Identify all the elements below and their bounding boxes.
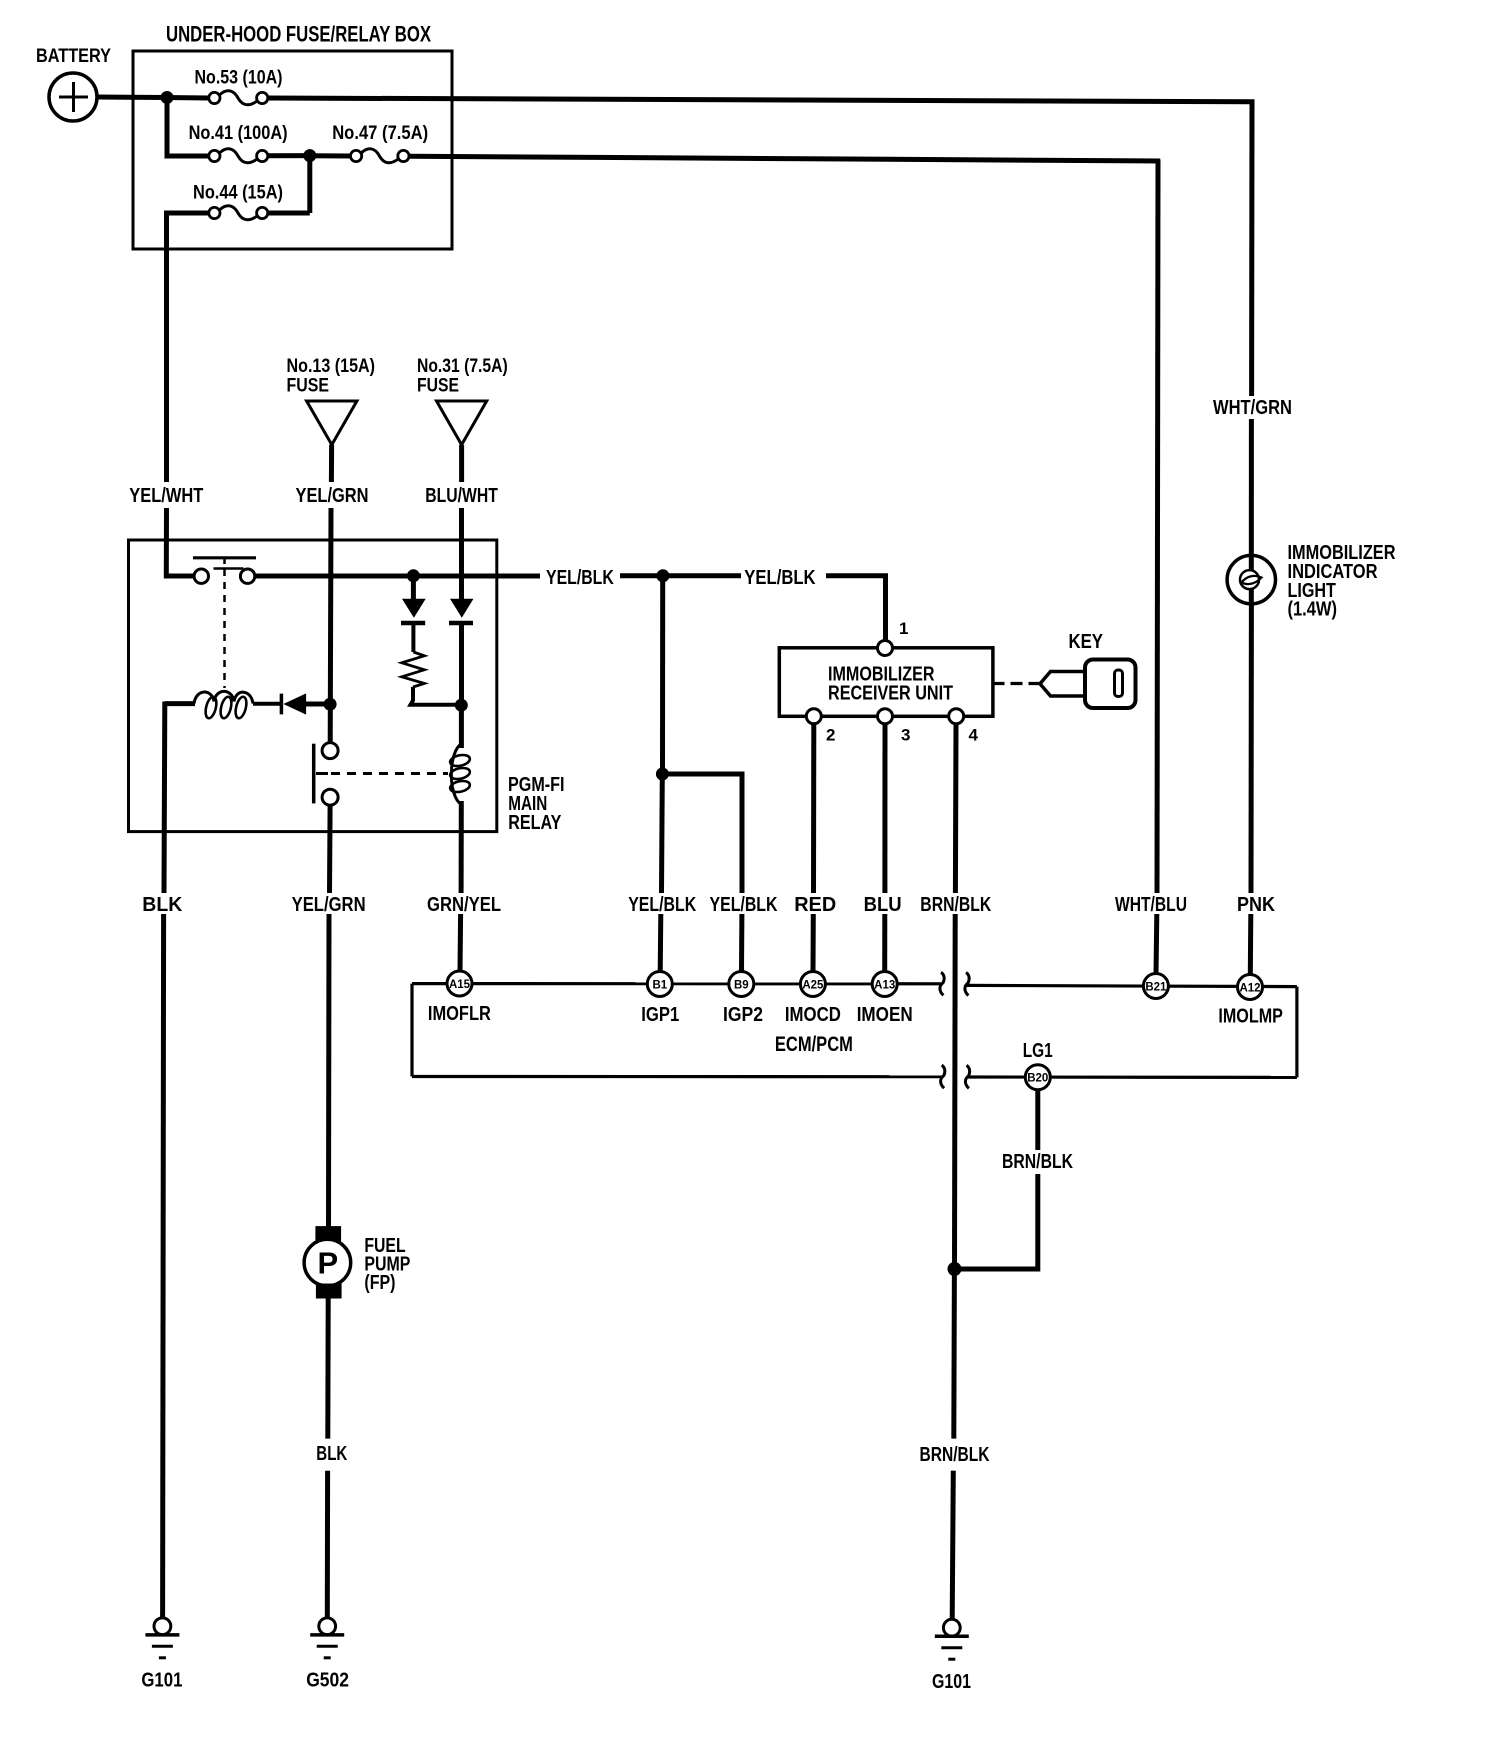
wire WHT/GRN to indicator: [1249, 419, 1254, 605]
label IMOEN: [857, 1004, 913, 1026]
connector A12: [1238, 975, 1263, 1000]
diode arrow pointing left: [283, 693, 306, 714]
label YEL/WHT: [129, 485, 203, 507]
svg-text:(1.4W): (1.4W): [1288, 599, 1338, 621]
pin 3 terminal: [878, 709, 911, 745]
label RED: [794, 894, 836, 916]
fuse No.47 (7.5A): [332, 123, 428, 163]
label BLK: [142, 894, 183, 916]
wire BLU pin3 down: [882, 724, 887, 893]
diode 2 cathode bar: [449, 621, 473, 626]
relay switch bar: [314, 744, 328, 804]
node junction diode2 resistor: [455, 699, 468, 712]
label fuel pump: [364, 1235, 410, 1294]
node diode junction YEL/BLK: [407, 569, 420, 582]
wire BRN/BLK below junction: [951, 1269, 957, 1439]
fuse No.31 (7.5A) symbol: [417, 356, 508, 445]
immobilizer indicator light bulb: [1227, 555, 1275, 603]
wire row2 mid: [268, 153, 310, 158]
node YEL/BLK junction: [656, 569, 669, 582]
svg-text:G502: G502: [306, 1670, 349, 1692]
svg-text:BRN/BLK: BRN/BLK: [1002, 1151, 1073, 1173]
label PNK: [1237, 894, 1275, 916]
label BLU/WHT: [425, 485, 498, 507]
wire PNK into A12: [1248, 914, 1254, 975]
svg-text:P: P: [318, 1246, 339, 1281]
pin 2 terminal: [806, 709, 835, 745]
svg-text:(FP): (FP): [364, 1272, 395, 1294]
wire BRN/BLK branch to junction: [955, 1174, 1038, 1269]
wire junction to relay coil 2: [459, 705, 464, 748]
wire diode 2 to junction: [459, 623, 464, 705]
diode 1 stem from YEL/BLK: [411, 576, 416, 600]
connector pass-through mark bottom left: [941, 1065, 945, 1088]
connector pass-through mark bottom right: [965, 1065, 969, 1088]
svg-text:ECM/PCM: ECM/PCM: [775, 1033, 853, 1056]
label LG1: [1023, 1040, 1053, 1062]
label BRN/BLK branch: [1002, 1151, 1073, 1173]
svg-text:UNDER-HOOD FUSE/RELAY BOX: UNDER-HOOD FUSE/RELAY BOX: [166, 22, 431, 47]
connector B1: [647, 972, 672, 997]
diode 2 arrow down: [450, 599, 474, 618]
label IGP2: [723, 1004, 763, 1026]
wire BLK below fuel pump: [325, 1299, 330, 1439]
diode 1 cathode bar: [401, 621, 425, 626]
label YEL/GRN lower: [292, 894, 366, 916]
svg-text:No.47 (7.5A): No.47 (7.5A): [332, 123, 428, 144]
label YEL/GRN: [296, 485, 369, 507]
wire WHT/BLU into B21: [1154, 914, 1160, 974]
fuse No.44 (15A): [193, 183, 283, 220]
label BRN/BLK lower: [920, 1444, 990, 1466]
wire branch to B9: [662, 774, 742, 893]
relay coil horizontal: [165, 691, 253, 719]
svg-text:2: 2: [826, 726, 835, 745]
wire BRN/BLK to ground: [952, 1471, 953, 1620]
PGM-FI main relay box: [129, 540, 565, 834]
wire row2 to fuse 47: [310, 153, 351, 158]
wire junction down to row3: [307, 156, 312, 213]
wire row3 left to vertical: [167, 211, 209, 216]
label IGP1: [641, 1004, 679, 1026]
svg-text:WHT/GRN: WHT/GRN: [1213, 397, 1292, 419]
wire WHT/BLU vertical: [1157, 160, 1158, 893]
wire YEL/BLK vertical to ECM: [660, 576, 665, 774]
node junction after fuse 41: [303, 149, 316, 162]
label IMOFLR: [428, 1003, 491, 1025]
label YEL/BLK second: [744, 567, 816, 589]
svg-text:YEL/BLK: YEL/BLK: [628, 894, 696, 916]
svg-text:4: 4: [969, 726, 979, 745]
svg-text:IGP1: IGP1: [641, 1004, 679, 1026]
svg-text:B9: B9: [734, 979, 749, 991]
svg-text:BRN/BLK: BRN/BLK: [920, 1444, 990, 1466]
label ECM/PCM: [775, 1033, 853, 1056]
svg-text:1: 1: [899, 619, 908, 638]
svg-text:3: 3: [901, 726, 910, 745]
wire coil to diode: [253, 702, 281, 706]
wire diode 1 to resistor: [411, 623, 415, 652]
svg-text:IMOLMP: IMOLMP: [1218, 1006, 1283, 1028]
wire PNK below indicator: [1249, 604, 1254, 893]
fuse No.53 (10A): [195, 68, 283, 105]
wire BLK to ground G101: [163, 914, 164, 1618]
svg-text:G101: G101: [932, 1671, 971, 1693]
dashed link unit to key: [993, 682, 1041, 685]
svg-text:B1: B1: [652, 979, 667, 991]
svg-text:FUSE: FUSE: [417, 376, 459, 397]
wire YEL/WHT down from fuse box: [164, 211, 169, 483]
wire YEL/BLK from contact: [255, 574, 540, 579]
svg-text:BLU: BLU: [864, 894, 902, 916]
svg-text:RELAY: RELAY: [508, 812, 562, 834]
fuel pump motor: [304, 1226, 351, 1298]
svg-text:No.13 (15A): No.13 (15A): [287, 356, 376, 377]
relay switch contact bottom: [322, 789, 338, 805]
label YEL/BLK first: [546, 567, 614, 589]
label BLU: [864, 894, 902, 916]
svg-text:BLU/WHT: BLU/WHT: [425, 485, 498, 507]
wire row2 left stub: [165, 154, 209, 159]
relay contact terminal right: [240, 569, 254, 583]
svg-text:YEL/BLK: YEL/BLK: [710, 894, 778, 916]
label YEL/BLK col1: [628, 894, 696, 916]
svg-text:RED: RED: [794, 894, 836, 916]
wire YEL/GRN below switch: [327, 805, 333, 893]
fuse No.13 (15A) symbol: [287, 356, 376, 445]
svg-text:A25: A25: [802, 979, 824, 991]
connector B21: [1143, 974, 1168, 999]
wire YEL/GRN from fuse 13: [329, 445, 334, 482]
wire fuse row1 left: [165, 95, 209, 101]
relay switch contact top: [322, 743, 338, 759]
node junction on YEL/GRN: [324, 698, 337, 711]
svg-text:B20: B20: [1027, 1073, 1048, 1085]
label IMOLMP: [1218, 1006, 1283, 1028]
connector pass-through mark top left: [940, 972, 944, 995]
wire GRN/YEL below coil: [459, 801, 464, 893]
relay contact actuator dashed link: [223, 569, 226, 688]
svg-text:No.53 (10A): No.53 (10A): [195, 68, 283, 89]
battery symbol: [36, 46, 111, 121]
svg-text:YEL/GRN: YEL/GRN: [296, 485, 369, 507]
ground G101 left: [141, 1618, 182, 1692]
key blade: [1040, 672, 1090, 697]
connector A15: [447, 971, 472, 996]
wire battery to fuse box: [97, 95, 167, 101]
relay contact bar: [193, 558, 256, 564]
node BRN/BLK junction: [948, 1262, 962, 1276]
wire WHT/GRN vertical upper: [1249, 100, 1254, 396]
fuse No.41 (100A): [189, 123, 288, 163]
svg-text:PNK: PNK: [1237, 894, 1275, 916]
wire diode to YEL/GRN junction: [306, 702, 328, 707]
svg-text:A15: A15: [449, 979, 471, 991]
svg-text:BATTERY: BATTERY: [36, 46, 111, 67]
svg-text:A12: A12: [1239, 982, 1260, 994]
connector A13: [872, 972, 897, 997]
label GRN/YEL: [427, 894, 501, 916]
key head: [1085, 660, 1136, 709]
wire RED into A25: [811, 914, 816, 972]
svg-text:No.44 (15A): No.44 (15A): [193, 183, 283, 204]
wire YEL/BLK into B1: [658, 914, 664, 972]
svg-text:YEL/BLK: YEL/BLK: [546, 567, 614, 589]
node junction below battery: [161, 91, 174, 104]
wire LG1 B20 down: [1035, 1090, 1040, 1150]
pin 4 terminal: [949, 709, 979, 745]
svg-text:IMOEN: IMOEN: [857, 1004, 913, 1026]
pin 1 terminal: [878, 619, 909, 656]
relay contact arm: [214, 567, 244, 570]
wire BRN/BLK through ECM: [952, 914, 958, 1269]
svg-text:YEL/GRN: YEL/GRN: [292, 894, 366, 916]
svg-text:BLK: BLK: [316, 1443, 347, 1465]
immobilizer receiver unit box: [779, 648, 993, 717]
label WHT/BLU: [1115, 894, 1187, 916]
label BRN/BLK col: [920, 894, 991, 916]
svg-text:No.41 (100A): No.41 (100A): [189, 123, 288, 144]
label immobilizer indicator light: [1288, 542, 1396, 621]
node YEL/BLK branch junction: [656, 768, 669, 781]
wire row2 to right corner WHT/BLU feed: [409, 156, 1160, 161]
svg-text:No.31 (7.5A): No.31 (7.5A): [417, 356, 508, 377]
under-hood fuse/relay box: [133, 22, 452, 250]
wire BLU/WHT from fuse 31: [459, 445, 464, 482]
svg-text:LG1: LG1: [1023, 1040, 1053, 1062]
wire BLU/WHT into relay to diode: [459, 508, 464, 600]
wire junction down to row2: [165, 98, 170, 157]
wire row1 to right corner WHT/GRN feed: [268, 98, 1255, 102]
wire YEL/WHT into relay: [166, 508, 194, 576]
resistor zigzag: [402, 652, 425, 687]
connector pass-through mark top right: [965, 973, 969, 996]
diode cathode bar left diode: [280, 694, 284, 715]
svg-text:A13: A13: [874, 979, 895, 991]
wire YEL/BLK vertical lower: [659, 774, 665, 893]
svg-text:IMOCD: IMOCD: [785, 1004, 841, 1026]
svg-text:GRN/YEL: GRN/YEL: [427, 894, 501, 916]
relay coil vertical: [449, 744, 471, 805]
label WHT/GRN: [1213, 397, 1292, 419]
wire YEL/BLK mid segment: [620, 573, 741, 578]
wire RED pin2 down: [811, 724, 816, 893]
svg-text:IGP2: IGP2: [723, 1004, 763, 1026]
label YEL/BLK col2: [710, 894, 778, 916]
wire BRN/BLK pin4 down: [953, 724, 959, 893]
ground G502: [306, 1618, 349, 1692]
connector B20: [1025, 1065, 1050, 1090]
ground G101 right: [932, 1619, 971, 1693]
svg-text:IMOFLR: IMOFLR: [428, 1003, 491, 1025]
label BLK lower: [316, 1443, 347, 1465]
svg-text:WHT/BLU: WHT/BLU: [1115, 894, 1187, 916]
svg-text:YEL/BLK: YEL/BLK: [744, 567, 816, 589]
wire BLK from coil down: [162, 702, 168, 894]
wire YEL/BLK to immobilizer pin 1: [826, 576, 886, 642]
label KEY: [1069, 631, 1104, 653]
wire GRN/YEL into A15: [458, 914, 464, 972]
svg-text:YEL/WHT: YEL/WHT: [129, 485, 203, 507]
wire resistor to junction: [411, 687, 462, 705]
svg-text:FUSE: FUSE: [287, 376, 330, 397]
svg-text:BRN/BLK: BRN/BLK: [920, 894, 991, 916]
svg-text:KEY: KEY: [1069, 631, 1104, 653]
diode 1 arrow down: [402, 599, 426, 618]
connector B9: [729, 972, 754, 997]
relay switch dashed link to coil: [331, 772, 448, 775]
wire BLU into A13: [882, 914, 887, 972]
wire row3 right: [268, 211, 310, 216]
svg-text:RECEIVER UNIT: RECEIVER UNIT: [828, 683, 953, 705]
relay contact terminal left: [194, 569, 208, 583]
wire YEL/GRN into relay switch: [328, 508, 334, 743]
ECM/PCM box edges: [412, 984, 1297, 1078]
wire branch into B9: [739, 914, 744, 972]
label IMOCD: [785, 1004, 841, 1026]
wire YEL/GRN to fuel pump: [326, 914, 332, 1227]
connector A25: [800, 972, 825, 997]
svg-text:B21: B21: [1145, 981, 1167, 993]
wire BLK to ground G502: [325, 1471, 330, 1618]
svg-text:BLK: BLK: [142, 894, 183, 916]
svg-text:G101: G101: [141, 1670, 182, 1692]
